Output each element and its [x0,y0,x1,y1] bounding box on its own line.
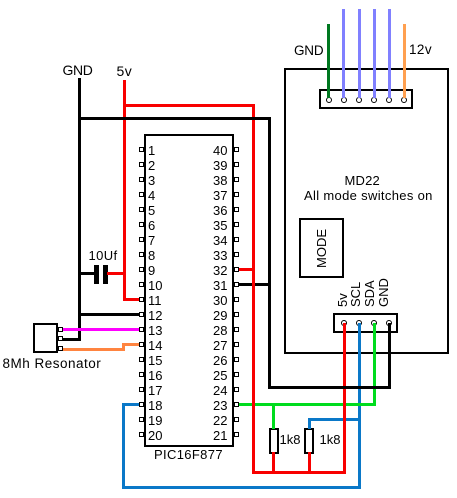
MD22 J2 pin 2 (SCL) [356,320,362,326]
IC pin 12 pad [139,312,144,317]
pin number 11 [148,294,162,307]
wire SCL bottom horizontal run [122,486,361,489]
IC pin 38 pad [234,177,239,182]
IC pin 36 pad [234,207,239,212]
IC pin 37 pad [234,192,239,197]
pin number 24 [195,384,228,397]
pin number 36 [195,204,228,217]
wire IC pin31 to GND vertical [239,283,269,286]
wire resistor R2 bottom lead to 5v [308,452,311,473]
label MODE (rotated) [315,229,328,268]
label GND (left supply) [63,64,93,77]
resonator pin 1 pad [58,327,63,332]
pin number 39 [195,159,228,172]
pin number 1 [148,144,155,157]
pin number 15 [148,354,162,367]
pin number 7 [148,234,155,247]
value label 1k8 (R2) [320,433,341,446]
resonator pin 3 pad [58,346,63,351]
pin number 22 [195,414,228,427]
MD22 J2 pin 1 (5v) [341,320,347,326]
wire orange jog vertical [122,344,125,351]
value label 1k8 (R1) [280,433,301,446]
wire motor lead 2 (blue) to MD22 J1 pin3 [358,9,361,98]
pin number 3 [148,174,155,187]
pin number 34 [195,234,228,247]
label 5v (J2, rotated) [336,293,349,307]
label MD22 [345,174,380,187]
wire orange into IC pin14 [122,343,140,346]
IC pin 13 pad [139,327,144,332]
IC pin 2 pad [139,162,144,167]
IC pin 19 pad [139,417,144,422]
wire motor lead 3 (blue) to MD22 J1 pin4 [373,9,376,98]
label GND (J2, rotated) [377,278,390,307]
pin number 10 [148,279,162,292]
wire GND (dark green) to MD22 J1 pin1 [327,24,330,98]
pin number 5 [148,204,155,217]
IC pin 31 pad [234,282,239,287]
IC pin 8 pad [139,252,144,257]
IC pin 34 pad [234,237,239,242]
wire SCL branch horizontal to resistor R2 [308,418,360,421]
IC pin 22 pad [234,417,239,422]
wire resonator top pin to IC pin13 (magenta) [63,328,140,331]
IC pin 4 pad [139,192,144,197]
label PIC16F877 [154,448,223,461]
wire GND branch to IC pin12 [79,313,139,316]
IC pin 21 pad [234,432,239,437]
label GND (MD22 motor connector) [294,44,323,57]
IC pin 11 pad [139,297,144,302]
pin number 16 [148,369,162,382]
IC pin 27 pad [234,342,239,347]
label 12v (MD22 motor connector) [409,43,432,56]
wire GND elbow to resonator middle pin [62,338,81,341]
label 5v (left supply) [117,65,133,78]
pin number 8 [148,249,155,262]
pin number 30 [195,294,228,307]
capacitor C1 10Uf right plate [103,265,108,284]
wire SCL horizontal into IC pin18 [122,403,140,406]
wire 5v vertical from 5v label [123,80,126,298]
wire capacitor C1 right lead (5v) [107,272,126,275]
IC pin 14 pad [139,342,144,347]
wire 12v (orange) to MD22 J1 pin6 [403,24,406,98]
pin number 9 [148,264,155,277]
IC pin 15 pad [139,357,144,362]
wire GND riser to MD22 J2 GND pin [388,323,391,388]
IC pin 39 pad [234,162,239,167]
wire 5v elbow into IC pin11 [123,298,140,301]
wire SCL vertical from MD22 J2 [358,323,361,489]
MD22 J1 pin 6 [401,97,407,103]
MD22 MODE switch block [299,218,344,279]
pin number 28 [195,324,228,337]
pin number 12 [148,309,162,322]
wire GND bottom horizontal under MD22 [268,386,391,389]
IC pin 16 pad [139,372,144,377]
IC pin 35 pad [234,222,239,227]
wire IC pin32 to 5v vertical [239,268,255,271]
MD22 J1 pin 4 [371,97,377,103]
pin number 17 [148,384,162,397]
wire capacitor C1 left lead [80,272,94,275]
IC pin 10 pad [139,282,144,287]
wire resistor R1 bottom lead to 5v [272,452,275,473]
pin number 33 [195,249,228,262]
IC pin 25 pad [234,372,239,377]
pin number 37 [195,189,228,202]
pin number 26 [195,354,228,367]
wire SCL left vertical [122,403,125,490]
IC pin 29 pad [234,312,239,317]
IC pin 5 pad [139,207,144,212]
pin number 27 [195,339,228,352]
pin number 20 [148,429,162,442]
value label 10Uf [89,249,118,262]
wire GND vertical right of IC [268,117,271,389]
MD22 J2 pin 3 (SDA) [371,320,377,326]
pin number 6 [148,219,155,232]
wire SDA drop from MD22 J2 [373,323,376,406]
wire SDA branch down to resistor R1 [272,404,275,429]
wire 5v top horizontal run [123,104,255,107]
wire GND vertical from GND label [78,78,81,341]
IC pin 24 pad [234,387,239,392]
IC pin 26 pad [234,357,239,362]
label 8Mh Resonator [3,357,102,370]
resonator pin 2 pad [58,336,63,341]
IC pin 1 pad [139,147,144,152]
label All mode switches on [304,189,433,202]
pin number 40 [195,144,228,157]
IC U1 PIC16F877 body [144,134,234,447]
resistor R1 1k8 body [269,428,280,454]
IC pin 23 pad [234,402,239,407]
pin number 25 [195,369,228,382]
IC pin 33 pad [234,252,239,257]
wire SCL branch drop to resistor R2 top [308,418,311,430]
wire motor lead 1 (blue) to MD22 J1 pin2 [342,9,345,98]
MD22 J1 pin 5 [386,97,392,103]
IC pin 40 pad [234,147,239,152]
pin number 21 [195,429,228,442]
pin number 13 [148,324,162,337]
IC pin 32 pad [234,267,239,272]
wire 5v riser to MD22 J2 5v pin [343,323,346,474]
pin number 31 [195,279,228,292]
pin number 14 [148,339,162,352]
pin number 2 [148,159,155,172]
IC pin 20 pad [139,432,144,437]
wire 5v bottom horizontal run [252,471,346,474]
pin number 38 [195,174,228,187]
IC pin 3 pad [139,177,144,182]
IC pin 18 pad [139,402,144,407]
pin number 18 [148,399,162,412]
module MD22 body [284,68,449,354]
resonator X1 body [33,323,58,353]
IC pin 30 pad [234,297,239,302]
IC pin 6 pad [139,222,144,227]
MD22 J2 pin 4 (GND) [386,320,392,326]
MD22 top connector J1 [319,89,414,110]
wire motor lead 4 (blue) to MD22 J1 pin5 [388,9,391,98]
MD22 J1 pin 1 [326,97,332,103]
wire 5v long vertical right of IC [252,104,255,474]
pin number 35 [195,219,228,232]
capacitor C1 10Uf left plate [94,265,99,284]
pin number 29 [195,309,228,322]
IC pin 9 pad [139,267,144,272]
MD22 J1 pin 3 [356,97,362,103]
wire resonator bottom pin horizontal (orange) [63,348,125,351]
MD22 bottom connector J2 (5v SCL SDA GND) [333,313,398,333]
resistor R2 1k8 body [304,428,315,454]
pin number 23 [195,399,228,412]
MD22 J1 pin 2 [341,97,347,103]
wire GND top horizontal run [78,117,270,120]
pin number 32 [195,264,228,277]
label SCL (J2, rotated) [349,281,362,306]
IC pin 28 pad [234,327,239,332]
wire SDA horizontal to IC pin23 [239,403,376,406]
label SDA (J2, rotated) [363,280,376,307]
pin number 4 [148,189,155,202]
IC pin 17 pad [139,387,144,392]
pin number 19 [148,414,162,427]
IC pin 7 pad [139,237,144,242]
